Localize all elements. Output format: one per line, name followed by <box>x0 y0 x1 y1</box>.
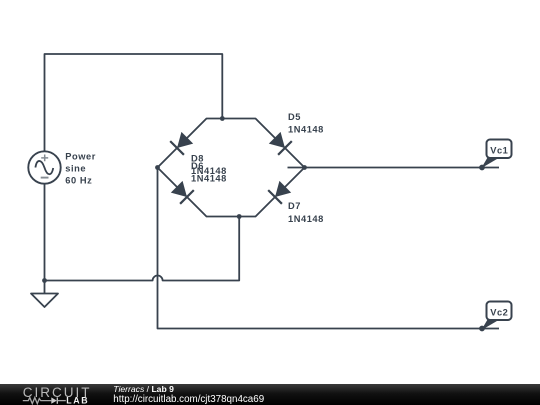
svg-text:1N4148: 1N4148 <box>288 124 324 134</box>
label D8 1N4148 <box>191 153 227 176</box>
diode D8 (top-left) <box>170 131 194 155</box>
diode D7 (bottom-right) <box>268 180 292 204</box>
svg-text:LAB: LAB <box>66 396 89 405</box>
node: bridge left corner <box>155 165 160 170</box>
node: bridge top junction <box>220 116 225 121</box>
svg-text:Vc2: Vc2 <box>490 308 508 318</box>
flag Vc1 <box>479 140 511 171</box>
svg-text:D6: D6 <box>191 161 204 171</box>
svg-text:D7: D7 <box>288 201 301 211</box>
label D5 1N4148 <box>288 112 324 135</box>
footer project text: Tierracs / Lab 9 <box>113 384 264 405</box>
svg-text:sine: sine <box>65 164 86 174</box>
svg-text:http://circuitlab.com/cjt378qn: http://circuitlab.com/cjt378qn4ca69 <box>113 394 264 405</box>
footer CircuitLab logo <box>23 385 92 405</box>
node: bridge bottom junction <box>237 214 242 219</box>
voltage source V1 (Power sine 60 Hz) <box>28 151 60 183</box>
diode D6 (bottom-left) <box>170 180 194 204</box>
svg-text:Tierracs / Lab 9: Tierracs / Lab 9 <box>113 384 174 394</box>
bridge octagon wires <box>158 119 305 217</box>
wire: source bottom to ground node <box>44 183 46 294</box>
svg-text:1N4148: 1N4148 <box>288 214 324 224</box>
svg-text:1N4148: 1N4148 <box>191 173 227 183</box>
wire: ground node to bridge bottom (hop over vertical wire) <box>45 217 240 281</box>
svg-text:60 Hz: 60 Hz <box>65 176 92 186</box>
wire top: source top to bridge top <box>45 54 223 152</box>
ground <box>31 294 58 308</box>
footer bar <box>0 384 540 405</box>
diode D5 (top-right) <box>268 131 292 155</box>
label D6 1N4148 <box>191 161 227 184</box>
svg-text:Vc1: Vc1 <box>490 146 508 156</box>
label D7 1N4148 <box>288 201 324 224</box>
flag Vc2 <box>479 302 511 332</box>
wire: bridge left corner down and right to Vc2 <box>158 168 483 329</box>
svg-text:Power: Power <box>65 151 96 161</box>
node: bridge right corner <box>302 165 307 170</box>
wire: bridge right corner to Vc1 <box>288 167 500 169</box>
label V1: Power sine 60 Hz <box>65 151 96 185</box>
svg-text:D5: D5 <box>288 112 301 122</box>
node: ground junction <box>42 278 47 283</box>
